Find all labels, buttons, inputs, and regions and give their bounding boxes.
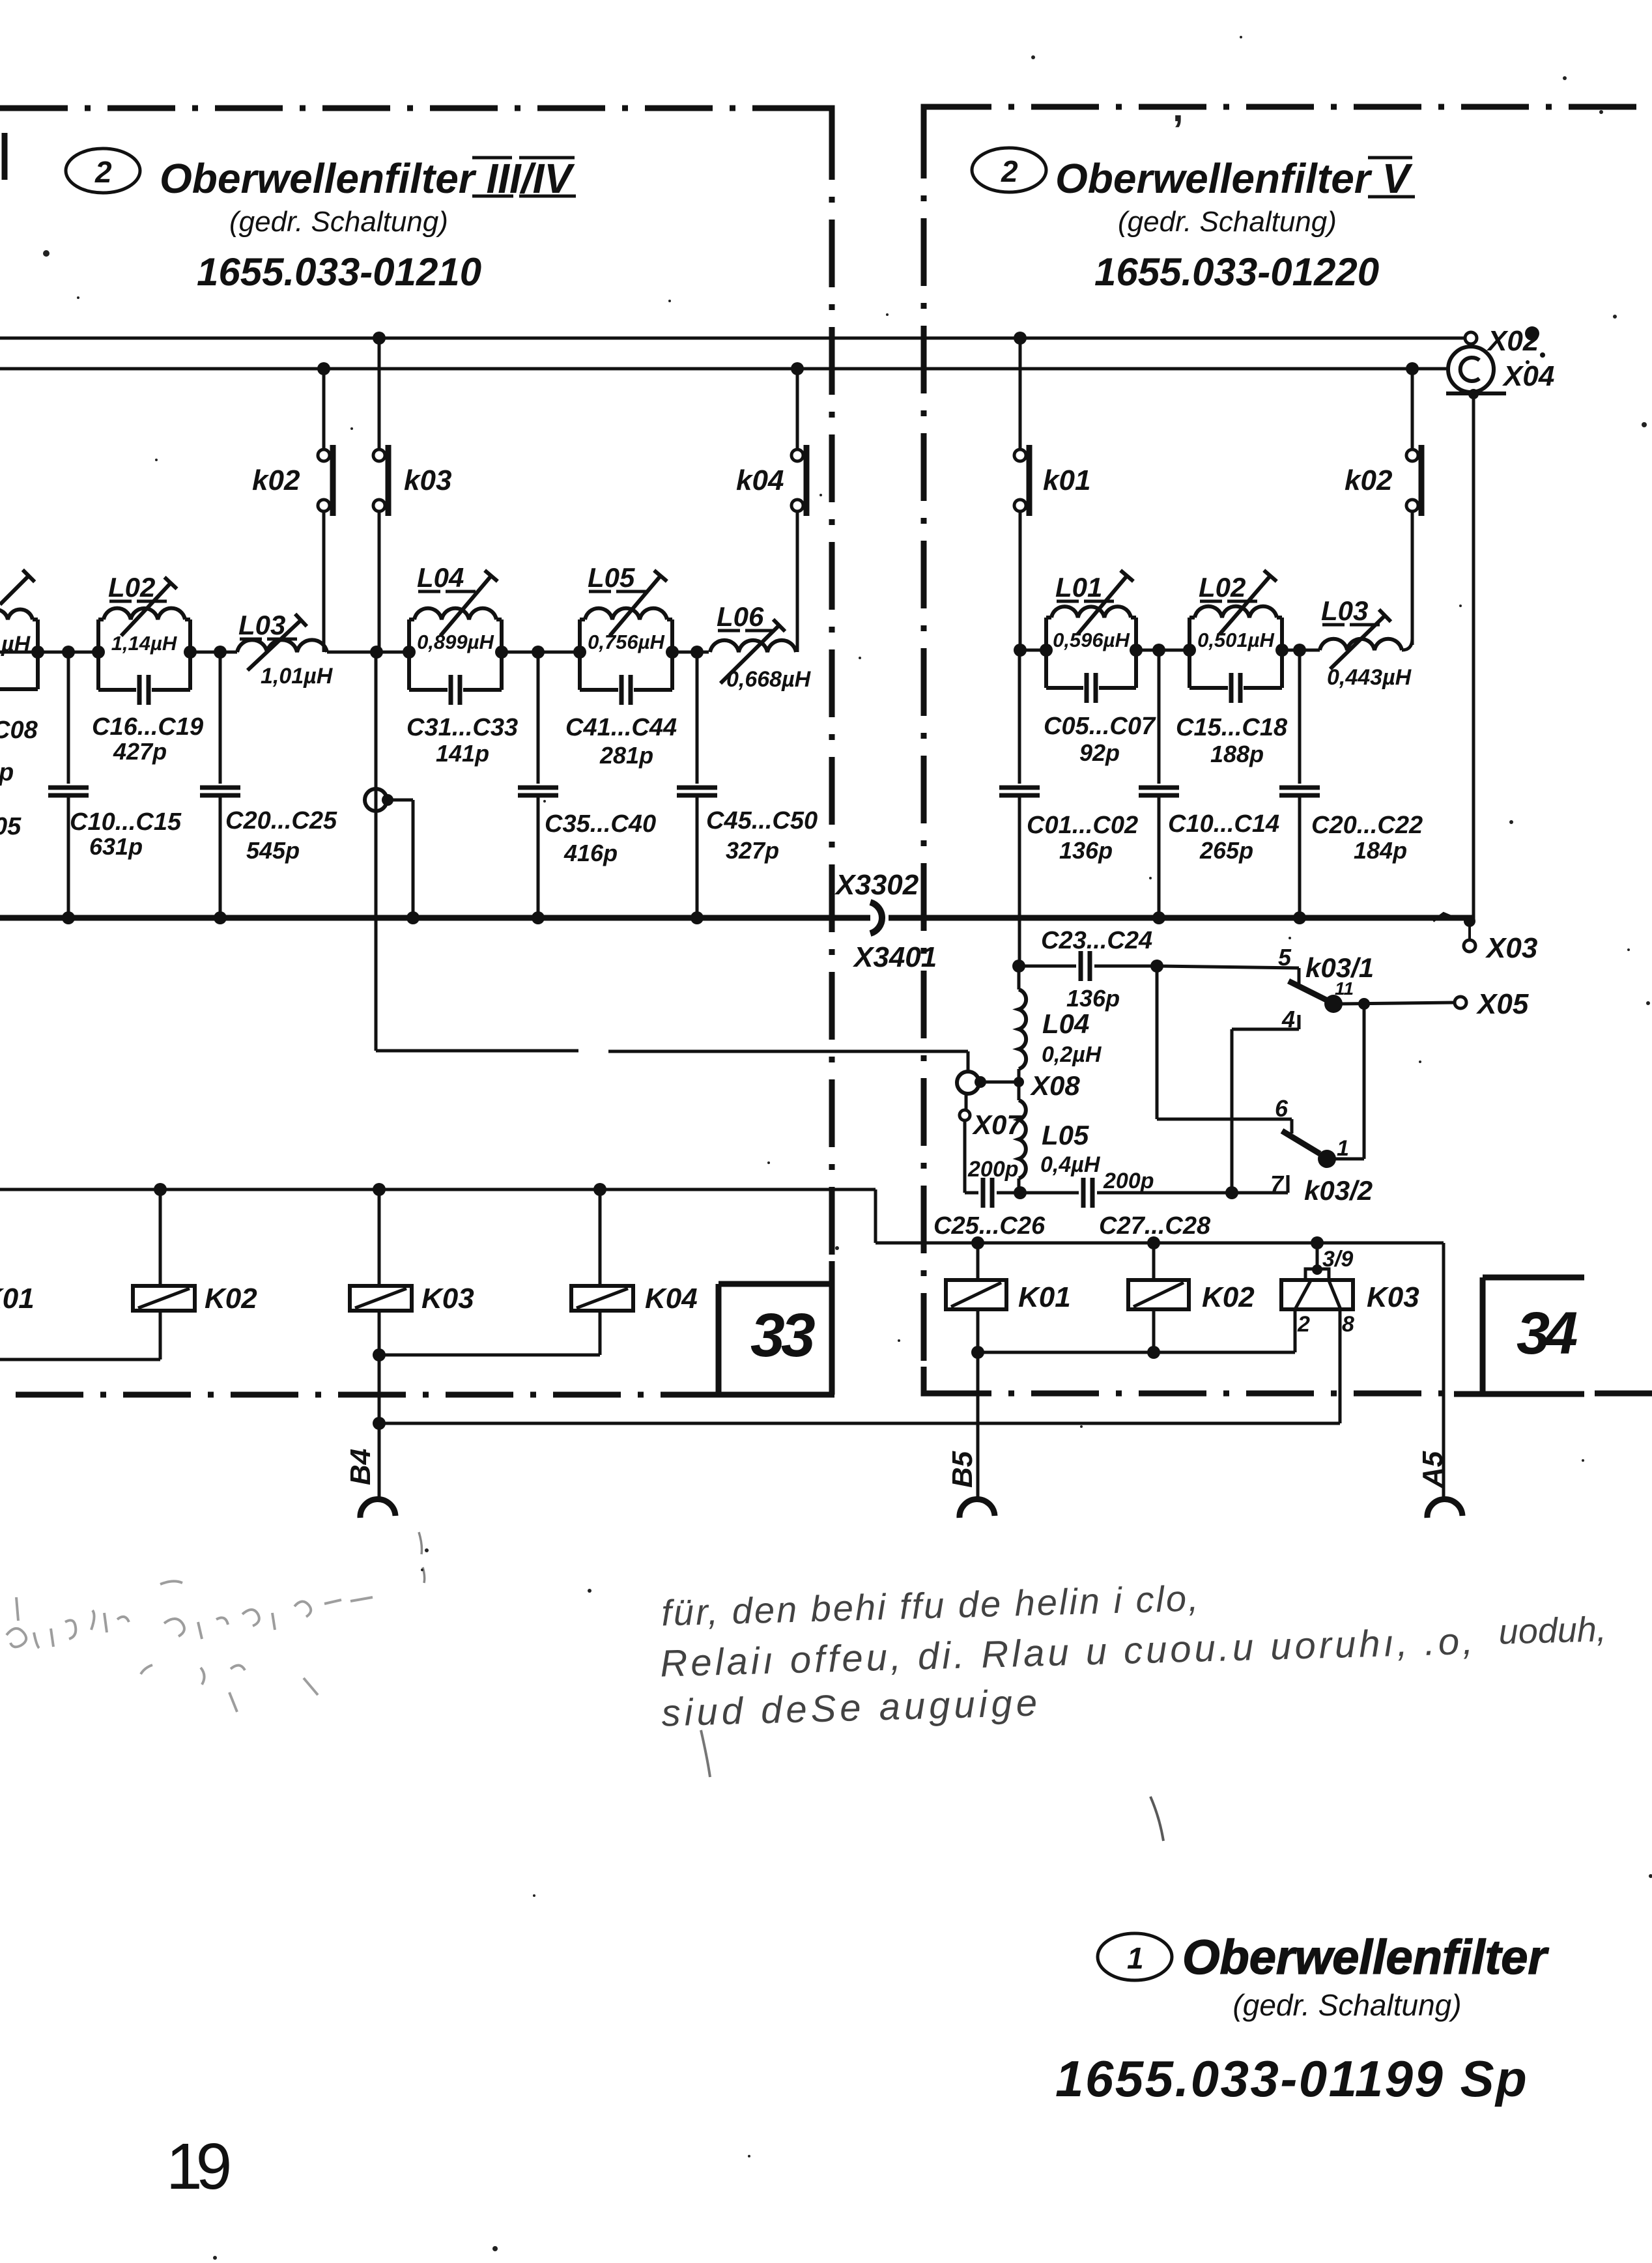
svg-text:281p: 281p — [599, 742, 653, 769]
svg-text:545p: 545p — [246, 837, 300, 864]
module border corner pieces — [808, 108, 832, 134]
svg-text:C05...C07: C05...C07 — [1044, 713, 1156, 740]
svg-text:C27...C28: C27...C28 — [1099, 1212, 1211, 1240]
svg-text:C45...C50: C45...C50 — [706, 807, 818, 834]
svg-text:0,2µH: 0,2µH — [1042, 1042, 1102, 1067]
svg-text:19: 19 — [166, 2130, 229, 2203]
sheet reference box 34 — [1454, 1277, 1584, 1394]
svg-text:L02: L02 — [1199, 572, 1246, 603]
svg-text:C16...C19: C16...C19 — [92, 713, 203, 741]
relay contact k02 right box — [1345, 369, 1421, 650]
terminal X07 — [960, 1094, 1023, 1193]
svg-text:2: 2 — [1001, 154, 1018, 188]
svg-text:µH: µH — [1, 632, 31, 657]
svg-text:C35...C40: C35...C40 — [545, 810, 656, 838]
svg-text:L04: L04 — [417, 562, 464, 593]
terminal X05 — [1455, 988, 1529, 1020]
svg-text:K01: K01 — [0, 1283, 35, 1315]
svg-text:6: 6 — [1275, 1095, 1289, 1122]
svg-text:K01: K01 — [1018, 1281, 1071, 1313]
capacitor C10...C14 shunt — [1139, 650, 1279, 918]
svg-text:C08: C08 — [0, 717, 38, 744]
svg-text:C01...C02: C01...C02 — [1027, 812, 1138, 839]
svg-text:0,899µH: 0,899µH — [417, 631, 494, 653]
capacitor C20...C25 shunt — [200, 652, 337, 918]
inductor L01 tank with C05...C07 — [1044, 571, 1156, 766]
svg-text:L03: L03 — [238, 610, 285, 640]
inductor L03 variable right box — [1320, 595, 1412, 690]
svg-text:k01: k01 — [1043, 464, 1090, 496]
test point connector left box — [365, 789, 413, 918]
svg-text:0,443µH: 0,443µH — [1327, 665, 1412, 690]
wire left relay bus — [0, 1189, 876, 1243]
inductor L02 tank with C16...C19 — [92, 572, 203, 765]
capacitor C23...C24 series — [1019, 927, 1157, 1012]
svg-text:1655.033-01199 Sp: 1655.033-01199 Sp — [1055, 2050, 1528, 2107]
inductor L04 vertical 0.2uH — [1019, 966, 1102, 1082]
svg-text:631p: 631p — [89, 833, 143, 860]
inductor L02 tank with C15...C18 right box — [1176, 571, 1288, 768]
bus B second horizontal wire — [0, 367, 1447, 371]
svg-text:1655.033-01220: 1655.033-01220 — [1094, 250, 1379, 294]
relay coil K03 right box with pins 3/9 2 8 — [1281, 1243, 1419, 1337]
svg-text:K02: K02 — [205, 1283, 257, 1315]
connector X3302 X3401 — [834, 869, 937, 973]
wire to contact 7 of k03/2 — [1232, 1171, 1288, 1197]
connector hook A5 — [1427, 1499, 1462, 1518]
svg-text:327p: 327p — [726, 837, 779, 864]
svg-text:L01: L01 — [1055, 572, 1102, 603]
svg-text:188p: 188p — [1210, 741, 1264, 767]
partial label C08 at cut edge — [0, 717, 38, 840]
node dot right of C23 — [1150, 960, 1163, 973]
coax connector symbol X04 — [1406, 347, 1554, 399]
relay coil K04 — [571, 1189, 698, 1355]
svg-text:X04: X04 — [1502, 360, 1554, 392]
sheet reference box 33 — [679, 1261, 834, 1395]
svg-text:k02: k02 — [252, 464, 300, 496]
svg-text:B5: B5 — [947, 1451, 978, 1488]
svg-text:u‌o‌d‌u‌h‌,: u‌o‌d‌u‌h‌, — [1498, 1610, 1607, 1652]
svg-text:k03/2: k03/2 — [1304, 1175, 1373, 1206]
module border right box bottom (dash-dot) — [924, 1391, 1454, 1397]
wire right relay bottoms — [971, 1309, 1295, 1359]
svg-text:C31...C33: C31...C33 — [406, 714, 518, 741]
svg-text:141p: 141p — [436, 740, 489, 767]
svg-text:L04: L04 — [1042, 1008, 1089, 1039]
svg-text:92p: 92p — [1079, 739, 1120, 766]
capacitor C25...C26 200p — [933, 1157, 1046, 1240]
wire to contact 5 of k03/1 — [1157, 944, 1299, 984]
wire test point to X08 — [376, 652, 968, 1072]
ground bus node dots — [62, 911, 75, 924]
module border right box top (dash-dot) — [924, 104, 1652, 110]
capacitor C01...C02 series branch — [999, 650, 1138, 966]
capacitor C10...C15 shunt — [48, 652, 182, 918]
svg-text:C20...C22: C20...C22 — [1311, 812, 1423, 839]
svg-text:0,501µH: 0,501µH — [1197, 629, 1274, 651]
relay contact k02 — [252, 362, 333, 652]
svg-text:5: 5 — [1278, 944, 1292, 971]
handwritten pencil note — [658, 1566, 1608, 1734]
svg-text:0,668µH: 0,668µH — [726, 667, 812, 692]
wire B4 node to K03 pin 8 right box — [379, 1422, 1340, 1425]
pencil stroke below note — [1150, 1797, 1163, 1841]
svg-text:X08: X08 — [1030, 1070, 1080, 1101]
svg-text:K03: K03 — [421, 1283, 474, 1315]
terminal X03 — [1464, 915, 1537, 964]
svg-text:C10...C15: C10...C15 — [70, 808, 182, 836]
capacitor C35...C40 shunt — [518, 652, 656, 918]
module border left box top (dash-dot) — [0, 106, 832, 111]
svg-text:Oberwellenfilter V: Oberwellenfilter V — [1055, 155, 1413, 202]
svg-text:(gedr. Schaltung): (gedr. Schaltung) — [1232, 1988, 1461, 2022]
left box title Oberwellenfilter III/IV — [160, 155, 576, 202]
svg-text:34: 34 — [1517, 1300, 1577, 1367]
svg-text:C20...C25: C20...C25 — [225, 807, 337, 834]
capacitor C27...C28 200p — [1020, 1169, 1232, 1240]
relay contact k03 — [373, 332, 451, 652]
contact 4 stub and wire — [1232, 1006, 1299, 1193]
svg-text:K02: K02 — [1202, 1281, 1255, 1313]
svg-text:136p: 136p — [1059, 837, 1113, 864]
module border left box right (dash-dot) — [829, 112, 835, 1261]
terminal X02 — [1465, 325, 1545, 364]
switch k03/2 — [1282, 1131, 1373, 1206]
svg-text:B4: B4 — [345, 1449, 377, 1485]
svg-text:X3401: X3401 — [852, 941, 937, 973]
svg-text:X05: X05 — [1475, 988, 1529, 1020]
svg-text:2: 2 — [1297, 1312, 1310, 1337]
svg-text:(gedr. Schaltung): (gedr. Schaltung) — [229, 206, 448, 238]
left box title badge 2 — [66, 149, 140, 193]
svg-text:A5: A5 — [1417, 1451, 1449, 1488]
switch k03/1 — [1289, 952, 1374, 1013]
item badge 1 — [1098, 1933, 1172, 1980]
svg-text:4: 4 — [1281, 1006, 1295, 1032]
connector hook B5 — [960, 1499, 995, 1518]
wire k03/2 to X05 node — [1334, 1004, 1364, 1159]
svg-text:L05: L05 — [1042, 1120, 1089, 1150]
wire k03/1 to X05 — [1342, 1003, 1455, 1004]
svg-text:416p: 416p — [563, 840, 618, 866]
svg-text:8: 8 — [1342, 1312, 1354, 1337]
inductor L04 tank with C31...C33 — [406, 562, 518, 767]
inductor L05 vertical 0.4uH — [1019, 1082, 1101, 1193]
pencil marks near B4 — [419, 1532, 425, 1583]
module border left box left stub — [2, 133, 8, 180]
wire K03 pin8 drop — [1339, 1309, 1342, 1423]
ground bus left box — [0, 915, 870, 921]
svg-text:L03: L03 — [1321, 595, 1368, 626]
relay contact k01 right box — [1014, 332, 1090, 650]
svg-text:200p: 200p — [1103, 1169, 1154, 1193]
right box title badge 2 — [972, 148, 1046, 192]
svg-text:k03/1: k03/1 — [1305, 952, 1374, 983]
module border right box left (dash-dot) — [921, 111, 927, 1393]
inductor L00 partial tank at left edge — [0, 570, 38, 689]
test point X08 — [957, 1070, 1080, 1101]
wire B5 drop — [947, 1352, 978, 1498]
svg-text:C10...C14: C10...C14 — [1168, 810, 1279, 838]
svg-text:L06: L06 — [717, 601, 764, 632]
connector hook B4 — [360, 1499, 395, 1518]
svg-text:L05: L05 — [588, 562, 635, 593]
svg-text:1655.033-01210: 1655.033-01210 — [197, 250, 481, 294]
svg-text:265p: 265p — [1199, 837, 1253, 864]
inductor L03 variable — [237, 610, 334, 689]
svg-text:,: , — [1173, 86, 1184, 130]
node dots right chain — [1014, 644, 1027, 657]
svg-text:0,596µH: 0,596µH — [1053, 629, 1130, 651]
relay coil K03 — [350, 1189, 474, 1355]
inductor L05 tank with C41...C44 — [565, 562, 677, 769]
relay coil K01 right box — [946, 1243, 1071, 1352]
wire from C23 node down to contact 6 — [1157, 966, 1292, 1133]
wire right filter chain — [1020, 649, 1046, 652]
svg-text:05: 05 — [0, 813, 21, 840]
svg-text:0,756µH: 0,756µH — [588, 631, 664, 653]
svg-text:200p: 200p — [967, 1157, 1019, 1182]
svg-text:1,01µH: 1,01µH — [261, 664, 334, 689]
svg-text:(gedr. Schaltung): (gedr. Schaltung) — [1118, 206, 1337, 238]
svg-text:184p: 184p — [1354, 837, 1407, 864]
node C23 junction — [1012, 960, 1025, 973]
svg-text:0,4µH: 0,4µH — [1040, 1152, 1101, 1177]
node dots left chain — [31, 646, 44, 659]
svg-text:427p: 427p — [113, 738, 167, 765]
svg-text:p: p — [0, 759, 14, 786]
capacitor C20...C22 shunt — [1279, 650, 1423, 918]
relay coil K02 — [0, 1189, 257, 1359]
svg-text:C41...C44: C41...C44 — [565, 714, 677, 741]
wire K03-K04 bottoms — [379, 1354, 600, 1357]
svg-text:3/9: 3/9 — [1322, 1247, 1353, 1272]
svg-text:1,14µH: 1,14µH — [111, 632, 177, 655]
right box title Oberwellenfilter V — [1055, 155, 1415, 202]
svg-text:Oberwellenfilter: Oberwellenfilter — [1182, 1930, 1549, 1984]
wire from X04 down to X03 node — [1472, 393, 1475, 920]
svg-text:k02: k02 — [1345, 464, 1393, 496]
svg-text:2: 2 — [94, 155, 112, 189]
svg-text:C15...C18: C15...C18 — [1176, 714, 1288, 741]
module border left box bottom (dash-dot) — [16, 1392, 681, 1398]
faint pencil scribbles bottom left — [7, 1581, 373, 1712]
inductor L06 variable — [710, 601, 812, 692]
svg-text:X03: X03 — [1485, 932, 1537, 964]
capacitor C45...C50 shunt — [677, 652, 818, 918]
svg-text:k03: k03 — [404, 464, 451, 496]
svg-text:k04: k04 — [736, 464, 784, 496]
svg-text:33: 33 — [750, 1301, 815, 1370]
check mark on bus — [1433, 913, 1453, 921]
svg-text:136p: 136p — [1066, 985, 1120, 1012]
svg-text:C23...C24: C23...C24 — [1041, 927, 1152, 954]
wire B4 drop — [345, 1355, 386, 1498]
svg-text:7: 7 — [1270, 1171, 1285, 1197]
svg-text:L02: L02 — [108, 572, 155, 603]
svg-text:X3302: X3302 — [834, 869, 919, 901]
svg-text:1: 1 — [1337, 1136, 1349, 1161]
svg-text:C25...C26: C25...C26 — [933, 1212, 1046, 1240]
wire left filter chain — [0, 651, 98, 654]
svg-text:K03: K03 — [1367, 1281, 1419, 1313]
relay coil K02 right box — [1128, 1243, 1255, 1352]
wire A5 drop — [1417, 1243, 1449, 1498]
relay contact k04 — [736, 362, 806, 652]
svg-text:1: 1 — [1127, 1941, 1144, 1975]
wire right relay bus — [876, 1242, 1444, 1245]
bus A top horizontal wire — [0, 337, 1464, 340]
ground bus right box — [889, 915, 1474, 921]
svg-text:X07: X07 — [972, 1109, 1023, 1140]
svg-text:K04: K04 — [645, 1283, 698, 1315]
